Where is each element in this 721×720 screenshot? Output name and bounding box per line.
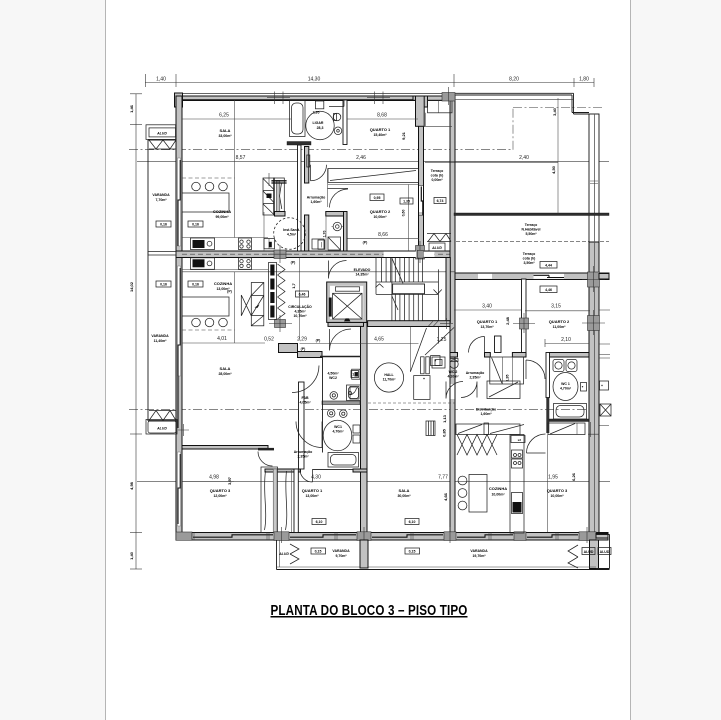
svg-text:4,50m²: 4,50m² (327, 372, 339, 376)
svg-text:11,40m²: 11,40m² (154, 339, 168, 343)
circulacao south wall chunk (279, 344, 298, 353)
left gray margin (0, 0, 105, 720)
svg-text:Distribuição: Distribuição (476, 408, 496, 412)
svg-text:11,00m²: 11,00m² (553, 325, 567, 329)
svg-text:28,3: 28,3 (317, 126, 324, 130)
bathroom right wall (343, 100, 347, 145)
svg-text:6,10: 6,10 (409, 520, 416, 524)
top-right L wall (413, 96, 443, 100)
corridor left line (299, 258, 301, 341)
svg-text:8,68: 8,68 (377, 113, 387, 119)
fab door arc (292, 366, 319, 393)
quarto2 door right apt (526, 360, 545, 379)
svg-text:QUARTO 1: QUARTO 1 (370, 127, 391, 132)
column right wall 2 (588, 316, 600, 331)
quarto2 niche door arc (328, 189, 349, 208)
svg-text:WC2: WC2 (329, 376, 337, 380)
svg-text:30,00m²: 30,00m² (397, 494, 411, 498)
left dimension line (135, 94, 137, 569)
closet quarto3 (261, 467, 278, 533)
wc upper left wall (263, 212, 265, 251)
left exterior wall (176, 96, 182, 537)
right apt quarto1 door (469, 337, 485, 353)
wc1 shower (347, 385, 361, 401)
svg-text:COZINHA: COZINHA (213, 209, 231, 214)
toilet top bath (333, 113, 341, 121)
dim 6,25 line (182, 118, 291, 120)
top right apt hatched closet (487, 381, 520, 399)
svg-text:4,10m²: 4,10m² (447, 375, 459, 379)
stairs upper flight treads (382, 258, 423, 282)
column corridor corner (275, 320, 286, 328)
stairwell right wall (446, 258, 450, 323)
bottom balcony divider (360, 540, 368, 568)
svg-text:WC 1: WC 1 (561, 382, 570, 386)
svg-text:4,46: 4,46 (545, 288, 552, 292)
slab band left apartment (176, 251, 455, 258)
right apt bath bottom wall (549, 419, 589, 422)
bottom balcony outline (277, 540, 610, 570)
sala-cozinha divider line upper (234, 100, 236, 238)
svg-text:(P): (P) (227, 290, 232, 294)
fridge (512, 493, 523, 514)
wc cluster right wall (344, 212, 348, 252)
terrace line 2,40 (425, 161, 558, 163)
svg-text:1,13: 1,13 (442, 414, 447, 423)
svg-text:(P): (P) (301, 347, 306, 351)
svg-text:QUARTO 1: QUARTO 1 (302, 488, 323, 493)
svg-text:1,70: 1,70 (323, 231, 327, 238)
right apt hall door (527, 434, 546, 453)
centerline jog vertical (512, 108, 514, 150)
lower kitchen burners (192, 318, 201, 327)
svg-text:9,21: 9,21 (401, 131, 406, 140)
svg-text:1,95: 1,95 (548, 475, 558, 481)
svg-text:4,66: 4,66 (443, 492, 448, 501)
svg-text:10,00m²: 10,00m² (550, 494, 564, 498)
slab band right gaps (478, 274, 492, 279)
dim 8,68 line (347, 118, 418, 120)
right apt wc2 toilet (450, 360, 458, 368)
column corridor right (416, 246, 425, 260)
svg-text:3,50m²: 3,50m² (523, 261, 535, 265)
left balcony divider (148, 252, 176, 256)
svg-text:4,44: 4,44 (545, 264, 552, 268)
wc1 corner tray (350, 387, 359, 400)
exterior fixture right 2 (600, 404, 611, 416)
quarto1 left apt door arc (300, 470, 313, 483)
svg-text:Arrumação: Arrumação (466, 371, 484, 375)
upper kitchen counter (182, 193, 229, 212)
cozinha upper dashed boundary (182, 177, 235, 179)
svg-text:cota (h): cota (h) (523, 257, 536, 261)
column ticks top wall 1 (267, 92, 290, 105)
kitchen lower boundary line (182, 271, 455, 273)
svg-text:2,40: 2,40 (519, 155, 529, 161)
right apt bath sinks (553, 360, 564, 372)
long dim line upper (137, 161, 609, 163)
svg-text:Terraço: Terraço (525, 223, 538, 227)
north arrow glyph (255, 305, 260, 308)
terrace ALUD box (429, 243, 445, 251)
svg-text:ALUD: ALUD (278, 552, 289, 556)
corridor bottom wall left apt (265, 469, 301, 472)
svg-text:4,70m²: 4,70m² (560, 387, 572, 391)
svg-text:3,40: 3,40 (552, 107, 557, 116)
wc cluster top wall (326, 212, 345, 217)
closet quarto1 (286, 471, 287, 530)
svg-text:8,20: 8,20 (509, 77, 519, 83)
shelf top right of bathroom (329, 100, 344, 107)
svg-text:VARANDA: VARANDA (470, 549, 488, 553)
corridor dim line (300, 343, 419, 345)
upper apt closet cells (263, 178, 274, 215)
svg-text:10,00m²: 10,00m² (491, 493, 505, 497)
svg-text:LIGAR: LIGAR (313, 121, 324, 125)
column right wall 1 (588, 272, 600, 287)
svg-text:0,85: 0,85 (442, 428, 447, 437)
svg-text:Arrumação: Arrumação (307, 196, 325, 200)
lower kitchen counter (182, 297, 229, 316)
wc1 left wall (299, 382, 305, 469)
quarto1 closet stub (495, 336, 502, 353)
svg-text:COZINHA: COZINHA (214, 281, 232, 286)
svg-text:1,35: 1,35 (403, 200, 410, 204)
svg-text:4,05m²: 4,05m² (299, 401, 311, 405)
left balcony bottom zigzag (149, 411, 176, 421)
upper apt wc basin (312, 239, 324, 249)
svg-text:3,15: 3,15 (551, 304, 561, 310)
svg-text:14,02: 14,02 (129, 281, 134, 292)
hall ellipse (374, 363, 403, 392)
stairs lower flight treads (395, 294, 422, 320)
corridor door gap lines upper (419, 185, 423, 187)
svg-text:QUARTO 3: QUARTO 3 (210, 488, 231, 493)
terrace parapet top (443, 93, 589, 114)
column slab band left (274, 250, 286, 259)
terrace AWD zigzag (428, 234, 451, 242)
svg-text:Terraço: Terraço (431, 169, 444, 173)
right apt bowtie triangles (457, 435, 497, 456)
svg-text:2,95: 2,95 (313, 111, 320, 115)
lower apt wardrobe triangles (278, 264, 286, 319)
svg-text:15,40m²: 15,40m² (373, 133, 387, 137)
central vertical wall (450, 96, 455, 537)
terrace vertical line (557, 98, 559, 214)
svg-text:QUARTO 2: QUARTO 2 (370, 209, 391, 214)
corridor left wall (298, 145, 302, 251)
svg-text:4,65: 4,65 (374, 337, 384, 343)
left balcony bottom ALUD box (146, 420, 177, 435)
svg-text:VARANDA: VARANDA (152, 193, 170, 197)
lower kitchen stove (239, 258, 252, 270)
stair landing label box (393, 284, 425, 294)
right apt room divider vertical (522, 279, 527, 354)
right apt dim 2,10 (545, 343, 589, 345)
svg-text:2,35m²: 2,35m² (297, 455, 309, 459)
svg-text:Inst.Sanit.: Inst.Sanit. (283, 228, 300, 232)
svg-text:19,70m²: 19,70m² (472, 554, 486, 558)
svg-text:6,10: 6,10 (316, 520, 323, 524)
kitchen island right apt (469, 475, 487, 513)
bottom wall columns (176, 532, 192, 540)
bottom balcony right piece (596, 535, 610, 569)
svg-text:WC1: WC1 (334, 425, 342, 429)
door arc circulation-sala (330, 329, 352, 351)
svg-text:1,80: 1,80 (579, 77, 589, 83)
closet sala with rod (328, 169, 419, 183)
left balcony top ALUD box (146, 125, 176, 140)
svg-text:ALUD: ALUD (600, 550, 610, 554)
right apt closet diagonal (425, 328, 454, 356)
exterior fixture right 1 (600, 381, 609, 390)
svg-text:4,35m²: 4,35m² (294, 310, 306, 314)
svg-text:N.Habitável: N.Habitável (521, 228, 540, 232)
corridor bottom wall right piece (353, 469, 367, 472)
svg-text:COZINHA: COZINHA (489, 486, 507, 491)
svg-text:ELEVADO: ELEVADO (354, 268, 371, 272)
lower apt pantry shelves (251, 283, 263, 326)
wc1 left wall (322, 357, 324, 453)
central wall door gap (451, 384, 455, 399)
svg-text:28,00m²: 28,00m² (218, 372, 232, 376)
kitchen chairs circles (458, 476, 467, 485)
svg-text:1,25: 1,25 (437, 337, 447, 343)
slab band dashes (182, 253, 455, 255)
bidet top bath (334, 127, 342, 135)
right apt bath big ellipse (553, 373, 578, 401)
svg-text:7,77: 7,77 (438, 475, 448, 481)
slab band right apartment (450, 273, 609, 280)
big circle bathroom top (306, 111, 334, 139)
svg-text:2,29: 2,29 (297, 337, 307, 343)
svg-text:1,60m²: 1,60m² (310, 200, 322, 204)
svg-text:1,95: 1,95 (506, 375, 510, 382)
svg-text:3,97: 3,97 (227, 476, 232, 485)
long dim line lower (137, 481, 610, 483)
svg-text:1,60m²: 1,60m² (480, 412, 492, 416)
svg-text:6,74: 6,74 (437, 199, 444, 203)
svg-text:SALA: SALA (220, 128, 231, 133)
top exterior wall (176, 96, 443, 101)
svg-text:6,26: 6,26 (571, 472, 576, 481)
left balcony outline (148, 140, 176, 421)
top dimension line (145, 82, 594, 84)
sala-cozinha divider line lower (234, 272, 236, 343)
svg-text:0,15: 0,15 (315, 550, 322, 554)
bottom exterior wall (176, 533, 608, 541)
svg-text:0,52: 0,52 (264, 337, 274, 343)
bottom balcony zigzag left (290, 544, 299, 564)
kitchen counter edge lower (182, 269, 268, 271)
wc1 toilet bidet (327, 410, 335, 418)
wc1 counter (322, 401, 360, 405)
bowtie symbol (241, 295, 251, 316)
top-right cells of left apt (428, 101, 453, 113)
svg-text:10,70m²: 10,70m² (293, 314, 307, 318)
ledge lines right of wall (599, 309, 610, 311)
column ticks top wall 2 (367, 92, 390, 105)
terrace gray dashed line (456, 241, 609, 243)
svg-text:6,25: 6,25 (219, 113, 229, 119)
svg-text:2,10: 2,10 (561, 337, 571, 343)
svg-text:HALL: HALL (384, 373, 394, 377)
right apt hatched closet 2 (548, 423, 585, 435)
sala-quarto wall left apt (182, 446, 268, 450)
svg-text:0,16: 0,16 (160, 223, 167, 227)
svg-text:2,35m²: 2,35m² (469, 376, 481, 380)
stairwell bottom wall (368, 321, 450, 327)
upper kitchen stove (239, 238, 252, 250)
slab band extension right of wall (599, 274, 609, 280)
right apt dim 3,40 3,15 (454, 309, 521, 311)
centerline horizontal lower (129, 409, 589, 411)
svg-text:3,40: 3,40 (482, 304, 492, 310)
arrumacao closet right apt (490, 357, 524, 384)
left wall window sliders (178, 160, 180, 524)
cozinha lower dashed boundary (182, 329, 235, 331)
svg-text:1,7: 1,7 (291, 282, 296, 288)
terrace bottom wall (454, 213, 609, 216)
svg-text:VARANDA: VARANDA (332, 549, 350, 553)
wc1 side shelves (353, 425, 360, 433)
svg-text:4,98: 4,98 (209, 475, 219, 481)
svg-text:2,46: 2,46 (356, 155, 366, 161)
svg-text:0,16: 0,16 (192, 223, 199, 227)
svg-text:4,01: 4,01 (217, 336, 227, 342)
wc1 big ellipse (323, 420, 352, 451)
wc center door arc (329, 261, 347, 279)
right apt bath left wall (546, 353, 550, 398)
stair rails (376, 258, 438, 344)
svg-text:14,30: 14,30 (308, 77, 321, 83)
column right apt divider (520, 318, 529, 329)
right apt closet small divider (484, 423, 489, 435)
bathroom bottom wall (287, 142, 311, 146)
left apt lower dims (183, 481, 234, 483)
upper kitchen burners (192, 182, 201, 191)
upper apt wc dashed turning circle (274, 218, 306, 250)
svg-text:(P): (P) (291, 261, 296, 265)
quarto3 left apt door (258, 452, 273, 467)
left balcony top zigzag (149, 140, 176, 149)
svg-text:10,00m²: 10,00m² (373, 215, 387, 219)
bottom wall piece to right (596, 534, 608, 539)
svg-text:ALUD: ALUD (156, 427, 167, 431)
svg-text:QUARTO 1: QUARTO 1 (477, 319, 498, 324)
right gray margin (631, 0, 721, 720)
toilet tank top (315, 101, 323, 109)
elevator shaft (327, 282, 367, 322)
svg-text:33,00m²: 33,00m² (218, 134, 232, 138)
svg-text:CIRCULAÇÃO: CIRCULAÇÃO (288, 304, 312, 309)
upper apt wc shower (328, 237, 341, 250)
svg-text:PLANTA DO BLOCO 3 – PISO TIPO: PLANTA DO BLOCO 3 – PISO TIPO (271, 602, 468, 619)
svg-text:0,00m²: 0,00m² (431, 178, 443, 182)
svg-text:Arrumação: Arrumação (294, 450, 312, 454)
svg-text:x2: x2 (518, 438, 522, 442)
upper apt closet door panel (274, 178, 285, 215)
svg-text:0,16: 0,16 (192, 283, 199, 287)
svg-text:QUARTO 2: QUARTO 2 (549, 319, 570, 324)
balcony right side wall (590, 540, 599, 569)
svg-text:13,00m²: 13,00m² (305, 494, 319, 498)
window slit left wall lower (178, 266, 181, 376)
centerline top right (513, 107, 602, 109)
svg-text:0,60: 0,60 (402, 210, 406, 217)
right apt wc2 basin (432, 357, 445, 368)
svg-text:SALA: SALA (399, 488, 410, 493)
svg-text:QUARTO 3: QUARTO 3 (547, 488, 568, 493)
svg-text:12,00m²: 12,00m² (213, 494, 227, 498)
svg-text:cota (h): cota (h) (431, 174, 444, 178)
svg-text:8,66: 8,66 (378, 232, 388, 238)
stairwell band opening (384, 252, 417, 258)
window slit left wall upper (178, 158, 181, 246)
svg-text:99,00m²: 99,00m² (215, 215, 229, 219)
entry vestibule details (411, 328, 427, 372)
svg-text:4,5m²: 4,5m² (287, 233, 297, 237)
svg-text:8,57: 8,57 (236, 155, 246, 161)
lower apt wardrobe bars (269, 263, 277, 320)
stair diagonals (392, 258, 403, 310)
window slit left wall bottom (178, 452, 181, 526)
upper kitchen sink (191, 238, 215, 250)
svg-text:4,50: 4,50 (551, 165, 556, 174)
bottom balcony AWD boxes right (582, 548, 595, 555)
svg-text:SALA: SALA (220, 366, 231, 371)
niche east wall line (327, 169, 329, 208)
svg-text:4,98: 4,98 (129, 481, 134, 490)
dim 4,01 line lower (182, 342, 265, 344)
svg-text:FAB: FAB (302, 396, 309, 400)
svg-text:VARANDA: VARANDA (151, 334, 169, 338)
right apt bathtub (554, 404, 587, 420)
svg-text:4,70m²: 4,70m² (332, 430, 344, 434)
svg-text:ALUD: ALUD (431, 246, 442, 250)
svg-text:6,46: 6,46 (299, 293, 306, 297)
partition quarto1-corridor left apt (294, 469, 298, 533)
svg-text:0,16: 0,16 (160, 283, 167, 287)
radiator left of kitchen (426, 421, 435, 436)
svg-text:1,40: 1,40 (129, 551, 134, 560)
svg-text:7,70m²: 7,70m² (155, 198, 167, 202)
boxed labels (156, 194, 557, 554)
dark column top right corner (442, 93, 455, 102)
svg-text:Terraço: Terraço (523, 252, 536, 256)
wc1 bathtub (328, 453, 359, 468)
window sill marks bottom (192, 533, 558, 541)
quarto divider wall lower left apt (361, 322, 368, 533)
svg-text:2,48: 2,48 (505, 316, 510, 325)
wc upper wall cap (275, 212, 286, 217)
svg-text:13,70m²: 13,70m² (480, 325, 494, 329)
svg-text:ALUD: ALUD (584, 550, 594, 554)
svg-text:9,70m²: 9,70m² (335, 554, 347, 558)
centerline horizontal upper (129, 149, 513, 151)
right apt hatched closet 1 (456, 424, 520, 435)
svg-text:0,95: 0,95 (374, 196, 381, 200)
dim 8,66 line center (348, 237, 420, 239)
right apt quarto3 left wall line (547, 435, 549, 533)
svg-text:1,46: 1,46 (129, 104, 134, 113)
svg-text:(P): (P) (316, 339, 321, 343)
door arc sala closet (311, 165, 327, 181)
svg-text:(P): (P) (363, 241, 368, 245)
right exterior wall (589, 114, 599, 242)
svg-text:0,15: 0,15 (409, 550, 416, 554)
kitchen counter edge upper (182, 237, 268, 239)
